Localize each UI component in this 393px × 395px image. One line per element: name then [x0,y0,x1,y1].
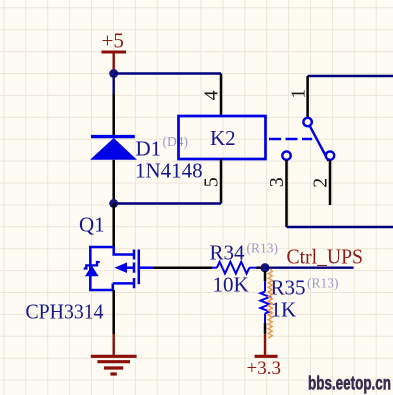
relay K2 pin 4 [220,74,223,117]
svg-text:(D4): (D4) [163,134,189,149]
transistor Q1 body [90,247,154,290]
power +3.3 [247,334,281,379]
transistor Q1 bulk arrow [115,262,128,273]
svg-text:R34: R34 [210,241,246,265]
transistor Q1 drain pin [112,204,115,249]
wire bottom right [287,226,393,228]
wire to net label [265,267,354,269]
overlay marker orange zigzag [268,269,272,338]
svg-text:+5: +5 [102,29,124,53]
power +5 [102,29,127,71]
svg-text:1: 1 [288,89,310,99]
svg-text:+3.3: +3.3 [247,358,281,379]
svg-text:1N4148: 1N4148 [135,159,203,183]
svg-text:CPH3314: CPH3314 [26,300,104,324]
svg-text:bbs.eetop.cn: bbs.eetop.cn [308,373,391,395]
relay K2 body [179,116,266,159]
svg-text:3: 3 [266,177,288,187]
diode D1 pin top [112,94,115,137]
svg-text:1K: 1K [271,298,297,322]
svg-text:K2: K2 [210,126,236,150]
switch pin 1 [306,76,309,118]
node junction +5 [109,69,118,78]
svg-text:D1: D1 [136,137,162,161]
svg-text:Ctrl_UPS: Ctrl_UPS [287,245,364,269]
wire from D1 node to relay pin 5 [114,202,221,204]
svg-text:(R13): (R13) [307,276,339,291]
relay K2 pin 5 [220,159,223,204]
diode D1 pin bottom [112,160,115,204]
transistor Q1 body diode (zener) [84,262,100,276]
wire from +5 node to relay pin 4 [114,72,221,74]
svg-text:5: 5 [201,177,223,187]
switch contact pin 2 [326,151,334,159]
switch blade [310,126,329,161]
wire vertical below +5 node [112,74,114,94]
svg-text:R35: R35 [271,276,306,300]
ground [91,334,137,374]
wire from Q1 gate to R34 [154,266,212,269]
switch pin 3 [285,160,288,227]
svg-text:Q1: Q1 [79,213,105,237]
relay linkage dashed line [269,138,312,141]
transistor Q1 source pin [112,290,115,334]
diode D1 body [90,137,137,160]
wire top right [308,75,393,77]
svg-text:(R13): (R13) [247,241,279,256]
svg-text:2: 2 [310,178,332,188]
switch pin 2 [329,160,332,205]
node junction Ctrl_UPS [260,263,269,272]
svg-text:4: 4 [201,90,223,100]
switch pole contact [303,118,311,126]
switch contact pin 3 [282,151,290,159]
svg-text:10K: 10K [213,273,249,297]
node junction below D1 [109,199,118,208]
resistor R35 [264,271,267,281]
resistor R34 [212,262,257,274]
